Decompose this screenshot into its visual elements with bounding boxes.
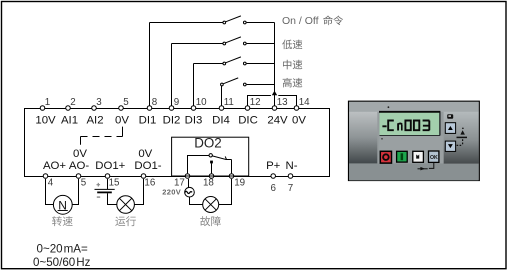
svg-text:0~50/60Hz: 0~50/60Hz bbox=[33, 256, 91, 269]
svg-text:24V: 24V bbox=[267, 115, 288, 127]
switch S3 mid-speed bbox=[226, 57, 241, 63]
svg-text:3: 3 bbox=[96, 97, 102, 108]
svg-text:2: 2 bbox=[70, 97, 75, 108]
run lamp H1 bbox=[117, 196, 135, 214]
M button bbox=[413, 151, 424, 162]
terminal 6 (P+) bbox=[271, 174, 276, 179]
terminal 16 bbox=[141, 174, 146, 179]
label speed bbox=[52, 216, 73, 226]
terminal 10 (DI3) bbox=[191, 106, 196, 111]
svg-text:DIC: DIC bbox=[238, 115, 258, 127]
OK button bbox=[429, 151, 439, 162]
terminal 17 bbox=[185, 174, 190, 179]
wire switch common down to terminal 13 (24V) bbox=[274, 23, 276, 106]
label mid-speed bbox=[283, 60, 302, 70]
svg-text:5: 5 bbox=[123, 97, 129, 108]
terminal 18 bbox=[209, 174, 214, 179]
svg-text:0V: 0V bbox=[138, 148, 152, 160]
label high-speed bbox=[283, 78, 303, 88]
svg-text:220V: 220V bbox=[162, 188, 181, 197]
wire jumper terminal 14 to common bbox=[278, 96, 296, 106]
svg-text:12: 12 bbox=[250, 97, 261, 108]
svg-text:0V: 0V bbox=[292, 115, 306, 127]
terminal 7 (N-) bbox=[288, 174, 293, 179]
svg-text:0~20mA=: 0~20mA= bbox=[37, 243, 89, 256]
svg-text:13: 13 bbox=[277, 97, 288, 108]
svg-text:OK: OK bbox=[430, 155, 438, 161]
terminal 2 (AI1) bbox=[66, 106, 71, 111]
svg-text:AI2: AI2 bbox=[86, 115, 103, 127]
down button bbox=[445, 141, 455, 151]
BOP operator panel bbox=[349, 101, 480, 180]
display icon bbox=[447, 114, 453, 118]
svg-text:6: 6 bbox=[270, 183, 276, 194]
wire switch row 1 horizontal bbox=[150, 22, 223, 24]
inverter terminal-strip outline box bbox=[25, 109, 330, 177]
fault lamp H2 bbox=[203, 197, 219, 213]
wire switch row 3 horizontal bbox=[194, 63, 223, 65]
switch S4 high-speed bbox=[224, 78, 239, 84]
svg-text:9: 9 bbox=[174, 97, 179, 108]
svg-text:0V: 0V bbox=[73, 148, 87, 160]
wire switch row 2 horizontal bbox=[172, 43, 223, 45]
svg-text:DO1-: DO1- bbox=[134, 160, 161, 172]
svg-text:14: 14 bbox=[299, 97, 310, 108]
svg-text:15: 15 bbox=[109, 178, 120, 189]
arrowhead into 24V line bbox=[272, 91, 277, 95]
wire DI1 riser bbox=[149, 23, 151, 106]
svg-text:DI2: DI2 bbox=[163, 115, 181, 127]
terminal 9 (DI2) bbox=[169, 106, 174, 111]
dashed internal 0V link bbox=[80, 137, 82, 145]
wire switch 3 to common bbox=[247, 63, 275, 65]
svg-text:DO2: DO2 bbox=[194, 136, 222, 151]
svg-text:DO1+: DO1+ bbox=[95, 160, 125, 172]
svg-text:0V: 0V bbox=[115, 115, 129, 127]
svg-text:AO-: AO- bbox=[69, 160, 89, 172]
battery symbol on DO1+ bbox=[107, 179, 109, 189]
switch S1 On/Off bbox=[226, 16, 241, 22]
terminal 1 (10V) bbox=[40, 106, 45, 111]
wire jumper terminal 12 to common bbox=[248, 96, 271, 106]
svg-text:DI3: DI3 bbox=[185, 115, 203, 127]
terminal 8 (DI1) bbox=[147, 106, 152, 111]
terminal 11 (DI4) bbox=[219, 106, 224, 111]
press/enter icon bbox=[418, 168, 428, 170]
terminal 19 bbox=[229, 174, 234, 179]
svg-text:N-: N- bbox=[285, 160, 297, 172]
wire lamp to terminal 16 bbox=[134, 179, 143, 205]
relay contact K1 bbox=[188, 156, 232, 174]
svg-text:8: 8 bbox=[152, 97, 158, 108]
svg-text:1: 1 bbox=[45, 97, 50, 108]
terminal 13 (24V) bbox=[272, 106, 277, 111]
terminal 12 (DIC) bbox=[245, 106, 250, 111]
svg-text:AI1: AI1 bbox=[61, 115, 78, 127]
function arrow icon bbox=[462, 128, 464, 130]
svg-text:DI1: DI1 bbox=[139, 115, 157, 127]
up button bbox=[445, 123, 455, 134]
svg-text:7: 7 bbox=[288, 183, 293, 194]
svg-text:AO+: AO+ bbox=[43, 160, 66, 172]
wire DI3 riser bbox=[193, 64, 195, 106]
svg-text:5: 5 bbox=[81, 178, 87, 189]
terminal 5 bbox=[76, 174, 81, 179]
svg-text:10V: 10V bbox=[35, 115, 56, 127]
speed meter M1 (N) bbox=[53, 195, 72, 214]
terminal 14 (0V) bbox=[294, 106, 299, 111]
wire switch 1 to common bbox=[247, 22, 275, 24]
terminal 3 (AI2) bbox=[92, 106, 97, 111]
wire switch 4 to common bbox=[247, 84, 275, 86]
wires terminal 4/5 to speed meter bbox=[46, 179, 79, 205]
switch S2 low-speed bbox=[226, 37, 241, 43]
green start button bbox=[397, 151, 408, 162]
wire switch 2 to common bbox=[247, 43, 275, 45]
svg-text:18: 18 bbox=[203, 178, 214, 189]
svg-text:On / Off: On / Off bbox=[282, 15, 319, 27]
LCD display bbox=[380, 112, 440, 135]
LCD digits -Cn003 bbox=[382, 121, 429, 131]
label run bbox=[115, 216, 136, 226]
DO2 relay box bbox=[172, 137, 249, 176]
svg-text:11: 11 bbox=[224, 97, 234, 108]
220V AC source bbox=[188, 179, 190, 188]
svg-text:P+: P+ bbox=[266, 160, 281, 172]
svg-text:16: 16 bbox=[144, 178, 155, 189]
terminal 4 bbox=[43, 174, 48, 179]
wire lamp to terminal 19 bbox=[219, 179, 232, 205]
terminal 15 bbox=[105, 174, 110, 179]
label fault bbox=[200, 216, 221, 226]
label low-speed bbox=[282, 40, 302, 50]
svg-text:DI4: DI4 bbox=[212, 115, 230, 127]
wire DI4 riser bbox=[221, 85, 223, 106]
svg-text:19: 19 bbox=[234, 178, 245, 189]
relay actuator from terminal 18 bbox=[210, 161, 213, 164]
svg-text:10: 10 bbox=[196, 97, 207, 108]
red stop button bbox=[380, 151, 391, 163]
terminal 5 (0V) bbox=[119, 106, 124, 111]
svg-text:4: 4 bbox=[48, 178, 54, 189]
wire DI2 riser bbox=[171, 44, 173, 106]
